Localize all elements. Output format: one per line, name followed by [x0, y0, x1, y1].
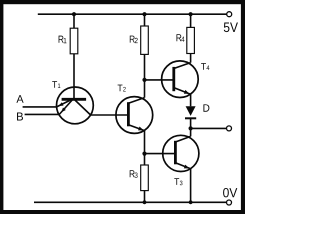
- wire 5V rail: [38, 13, 227, 15]
- node output junction: [189, 126, 193, 130]
- diode D: [185, 106, 196, 118]
- wire R2 to T2 collector: [144, 54, 146, 97]
- wire T2 emitter down to node: [144, 131, 146, 154]
- label T2: [118, 85, 126, 92]
- wire input A: [23, 106, 57, 108]
- wire rail to R2: [144, 14, 146, 26]
- transistor T3: [163, 135, 199, 171]
- wire T1 collector to T2 base: [91, 114, 129, 116]
- wire 0V rail: [34, 201, 226, 203]
- label B: [17, 113, 23, 121]
- label T1: [52, 81, 60, 88]
- border frame: [0, 0, 245, 214]
- wire input B: [25, 113, 60, 115]
- wire output: [191, 127, 227, 129]
- wire R4 to T4 collector: [190, 54, 192, 63]
- resistor R3: [141, 165, 149, 191]
- label R4: [176, 34, 184, 42]
- terminal output: [227, 126, 232, 131]
- wire T4 emitter to diode D: [190, 94, 192, 106]
- label T3: [174, 178, 182, 185]
- label T4: [201, 63, 209, 70]
- terminal 0V: [227, 200, 232, 205]
- node rail-R2 junction: [142, 12, 146, 16]
- wire node to R3: [144, 154, 146, 165]
- wire R3 to 0V rail: [144, 191, 146, 203]
- node T2 emitter / R3 / T3 base junction: [142, 152, 146, 156]
- label A: [16, 95, 23, 103]
- wire R1 to T1 base: [73, 54, 75, 100]
- node T2 collector / T4 base junction: [142, 78, 146, 82]
- transistor T4: [162, 61, 199, 98]
- wire output node to T3 collector: [190, 128, 192, 136]
- wire diode to output node: [190, 118, 192, 128]
- terminal 5V: [227, 12, 232, 17]
- label 0V: [223, 188, 237, 197]
- resistor R2: [141, 26, 149, 54]
- node T3 emitter-0V junction: [189, 200, 193, 204]
- label R3: [130, 170, 138, 178]
- transistor T1: [56, 87, 93, 124]
- wire node to T4 base: [145, 79, 174, 81]
- wire node to T3 base: [145, 153, 176, 155]
- label D: [203, 104, 209, 111]
- node rail-R4 junction: [189, 12, 193, 16]
- wire rail to R4: [190, 14, 192, 27]
- node R3-0V junction: [143, 200, 147, 204]
- label R1: [59, 36, 67, 44]
- resistor R1: [70, 28, 78, 54]
- wire rail to R1: [73, 14, 75, 28]
- transistor T2: [116, 97, 153, 134]
- label 5V: [224, 23, 238, 33]
- resistor R4: [187, 27, 195, 53]
- label R2: [130, 36, 138, 44]
- wire T3 emitter to 0V rail: [190, 169, 192, 203]
- node rail-R1 junction: [72, 12, 76, 16]
